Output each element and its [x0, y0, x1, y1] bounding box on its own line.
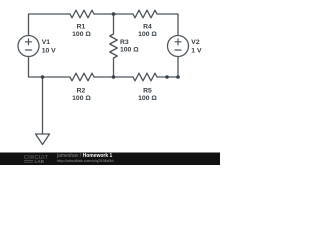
resistor R1 — [70, 10, 94, 18]
voltage source V1 — [18, 36, 39, 57]
svg-text:100 Ω: 100 Ω — [72, 31, 91, 38]
svg-text:R1: R1 — [77, 23, 86, 30]
resistor R4 — [133, 10, 157, 18]
wire V2 bottom — [177, 57, 179, 78]
resistor R2 — [70, 73, 94, 81]
wire R3 bottom lead — [113, 58, 115, 77]
V2 plus sign — [175, 39, 181, 45]
svg-text:100 Ω: 100 Ω — [138, 95, 157, 102]
resistor R3 — [110, 34, 118, 58]
svg-text:1 V: 1 V — [191, 47, 202, 54]
wire R4 right to V2 top — [157, 14, 178, 36]
svg-text:V1: V1 — [42, 39, 51, 46]
svg-text:100 Ω: 100 Ω — [72, 95, 91, 102]
V1 minus sign — [26, 49, 32, 51]
wire ground lead — [42, 77, 44, 134]
wire R5 right to V2 bottom node — [157, 76, 178, 78]
V2 minus sign — [175, 49, 181, 51]
watermark bar — [0, 153, 220, 166]
svg-text:100 Ω: 100 Ω — [120, 47, 139, 54]
wire R3 top lead — [113, 14, 115, 34]
voltage source V2 — [168, 36, 189, 57]
svg-text:V2: V2 — [191, 39, 200, 46]
wire top-left: V1 top to R1 left — [29, 14, 71, 36]
svg-text:LAB: LAB — [35, 159, 45, 164]
wire R2 right to R5 left — [94, 76, 133, 78]
wire V1 bottom to R2 left — [29, 57, 71, 78]
svg-text:R2: R2 — [77, 87, 86, 94]
circuitlab logo — [24, 155, 49, 164]
svg-text:10 V: 10 V — [42, 47, 56, 54]
V1 plus sign — [26, 39, 32, 45]
resistor R5 — [133, 73, 157, 81]
svg-text:R4: R4 — [143, 23, 152, 30]
ground — [36, 134, 50, 145]
node junction R5 right — [165, 75, 169, 79]
svg-text:R5: R5 — [143, 87, 152, 94]
svg-text:R3: R3 — [120, 39, 129, 46]
wire R1 right to R4 left — [94, 13, 133, 15]
svg-text:http://circuitlab.com/c/q2936d: http://circuitlab.com/c/q2936d3d — [57, 158, 113, 163]
node junction ground — [41, 75, 45, 79]
node junction bottom R3 — [112, 75, 116, 79]
svg-text:100 Ω: 100 Ω — [138, 31, 157, 38]
node junction top R3 — [112, 12, 116, 16]
node junction V2 bottom — [176, 75, 180, 79]
